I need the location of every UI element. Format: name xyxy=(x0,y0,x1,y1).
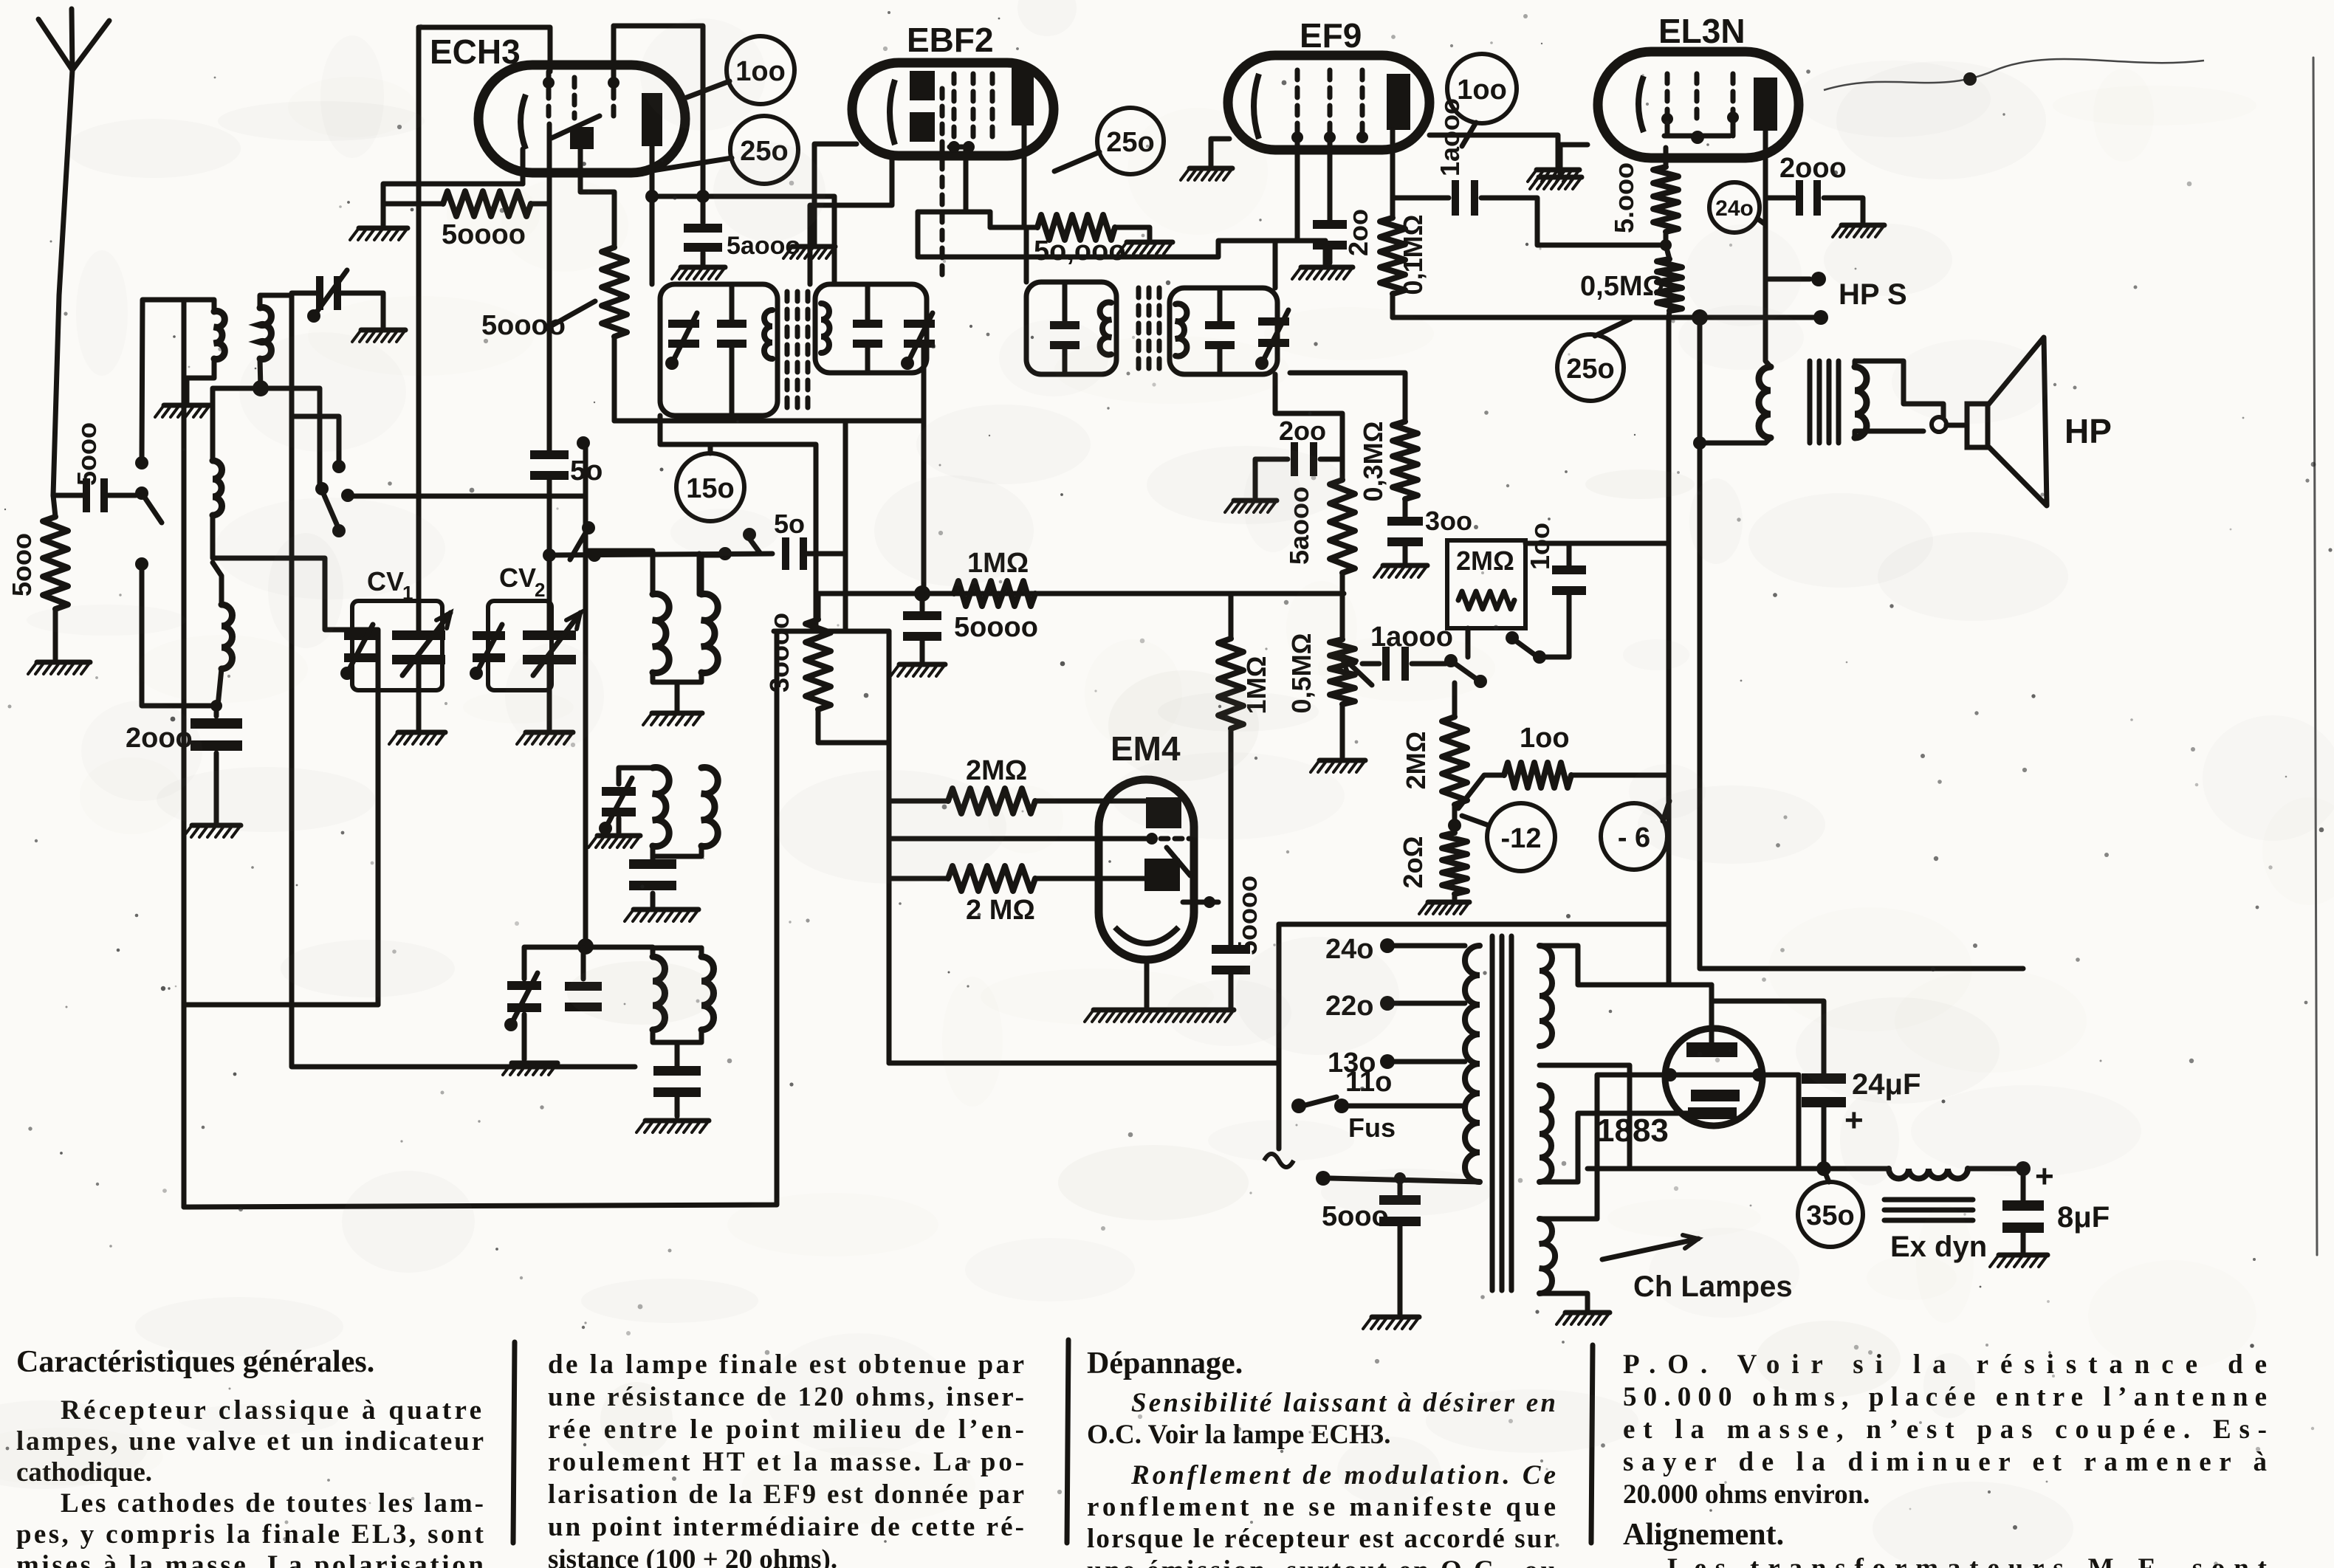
ground 20ohm xyxy=(1428,900,1469,905)
coil L8 xyxy=(653,957,665,1030)
switch AF xyxy=(1444,654,1458,667)
resistor 0.3M xyxy=(1290,373,1405,422)
wire IF2 primary feed xyxy=(991,227,1026,282)
EF9 cathode xyxy=(1254,74,1259,139)
svg-text:2MΩ: 2MΩ xyxy=(966,755,1027,786)
IF2 cap1 xyxy=(1050,321,1080,329)
svg-text:2oΩ: 2oΩ xyxy=(1398,836,1428,889)
circle 250 right xyxy=(1557,334,1624,401)
capacitor 10000 xyxy=(1393,196,1449,201)
wave switch bank 1 xyxy=(135,456,148,470)
transformer HT bottom xyxy=(1540,1085,1552,1182)
svg-text:ECH3: ECH3 xyxy=(430,32,521,71)
wire L6L7 join xyxy=(653,846,701,856)
wire switch cap100 xyxy=(1540,594,1569,657)
1883 lower bars xyxy=(1691,1090,1740,1101)
1883 cath out xyxy=(1765,1075,1799,1169)
tube EM4 xyxy=(1099,780,1194,960)
circle -12 xyxy=(1487,803,1555,871)
svg-text:HP: HP xyxy=(2064,412,2112,450)
coil L3 xyxy=(213,461,222,515)
leader 240 xyxy=(1757,219,1765,224)
tap bottom xyxy=(1316,1171,1331,1186)
svg-text:0,3MΩ: 0,3MΩ xyxy=(1358,422,1388,502)
varcap CV1 xyxy=(392,630,445,640)
EBF2 pin screen xyxy=(918,210,990,215)
EM4 screen arc xyxy=(1115,927,1178,943)
leader 100 xyxy=(687,81,730,97)
wire coilA top xyxy=(142,300,214,463)
capacitor L8 bottom xyxy=(653,1066,701,1076)
HT top lead xyxy=(1540,946,1669,985)
1883 heater line xyxy=(1663,1073,1765,1078)
tube EL3N xyxy=(1598,52,1799,158)
svg-text:1883: 1883 xyxy=(1596,1113,1669,1149)
coil L4 xyxy=(653,594,669,673)
EL3N anode lead xyxy=(1765,131,1771,367)
svg-text:20.000 ohms environ.: 20.000 ohms environ. xyxy=(1623,1479,1870,1510)
svg-text:3oooo: 3oooo xyxy=(764,613,794,692)
EF9 dashes xyxy=(1295,70,1300,133)
svg-text:Alignement.: Alignement. xyxy=(1623,1518,1784,1552)
arrow Ch Lampes xyxy=(1602,1239,1698,1259)
IF1 trimmer2 xyxy=(904,320,935,328)
resistor 5000 EL3N xyxy=(1664,148,1669,167)
wire CV2 gnd xyxy=(547,659,552,729)
svg-text:2MΩ: 2MΩ xyxy=(1456,546,1514,576)
circle 100 EF9 xyxy=(1447,54,1517,123)
speaker cone xyxy=(1988,337,2047,506)
capacitor osc pad xyxy=(651,856,656,861)
resistor 2M upper xyxy=(889,799,948,804)
wire AVC return xyxy=(182,300,187,1207)
trimmer padder xyxy=(507,981,541,990)
resistor 20ohm xyxy=(1442,833,1467,894)
coil L9 xyxy=(701,957,714,1030)
resistor 5000 antenna xyxy=(53,495,55,517)
EM4 mid electrode xyxy=(1146,833,1158,845)
ground coil L1 xyxy=(164,403,210,408)
circle 240 xyxy=(1709,182,1760,233)
EL3N dashes xyxy=(1665,74,1670,117)
capacitor 5000 series xyxy=(53,493,83,498)
resistor 0.5M EL3N xyxy=(1666,245,1669,259)
ground 50000 mid xyxy=(1127,240,1173,245)
circle 150 xyxy=(676,453,744,521)
EBF2 diode plates xyxy=(910,71,935,100)
heater winding xyxy=(1540,1219,1555,1293)
ground trimmer padder xyxy=(522,1014,527,1059)
tube 1883 xyxy=(1665,1028,1762,1126)
capacitor padder2 xyxy=(565,982,602,991)
trimmer CV2 xyxy=(473,631,505,640)
svg-text:15o: 15o xyxy=(686,473,734,504)
svg-text:pes, y compris la finale EL3,: pes, y compris la finale EL3, sont xyxy=(16,1519,484,1550)
wire V2 xyxy=(1700,317,2023,969)
svg-text:2oo: 2oo xyxy=(1343,209,1373,256)
svg-text:2: 2 xyxy=(535,579,545,601)
EL3N cathode xyxy=(1638,76,1644,132)
EF9 cath lead xyxy=(1328,137,1333,222)
wire CV1 line xyxy=(416,27,422,636)
ECH3 grid dots xyxy=(543,77,555,89)
resistor 100 h xyxy=(1458,775,1504,808)
EF9 dots xyxy=(1291,131,1303,143)
capacitor 100 grid xyxy=(1552,565,1586,574)
trimmer osc mid xyxy=(602,787,636,796)
svg-text:O.C. Voir la lampe ECH3.: O.C. Voir la lampe ECH3. xyxy=(1087,1420,1391,1450)
svg-text:sistance (100 + 20 ohms).: sistance (100 + 20 ohms). xyxy=(548,1544,837,1568)
EM4 grid1 xyxy=(1146,797,1181,828)
leader 250 right xyxy=(1595,319,1630,336)
svg-text:2MΩ: 2MΩ xyxy=(1401,732,1431,790)
EF9 metal gnd xyxy=(1429,135,1558,167)
ground 300 xyxy=(1383,563,1427,568)
tuning frame left xyxy=(419,27,550,72)
resistor 2M box xyxy=(1458,591,1514,609)
ECH3 anode xyxy=(642,93,662,146)
speaker driver xyxy=(1967,404,1988,447)
wire 2000 to gnd xyxy=(214,753,219,822)
svg-text:0,5MΩ: 0,5MΩ xyxy=(1580,271,1665,302)
scratch top right xyxy=(1824,59,2204,90)
resistor 1M h xyxy=(954,581,1035,606)
OT sec loop xyxy=(1932,417,1946,432)
ECH3 pin triode grid xyxy=(547,124,552,204)
junction padder xyxy=(577,938,594,955)
junction 1M xyxy=(914,585,930,602)
wire padder drop xyxy=(586,947,587,949)
wire CV1 gnd xyxy=(416,659,422,729)
resistor 0.1M xyxy=(1380,218,1405,294)
svg-text:un point intermédiaire de cett: un point intermédiaire de cette ré- xyxy=(548,1512,1024,1542)
ground L8 xyxy=(645,1118,709,1124)
ground CT1 xyxy=(381,293,386,327)
capacitor 24uF xyxy=(1712,1001,1824,1074)
rule col2-3 xyxy=(1067,1340,1068,1543)
IF2 coil right xyxy=(1175,303,1187,356)
paper speckle noise xyxy=(1490,41,1493,44)
switch bank 3 xyxy=(718,547,732,560)
ECH3 grid dashes xyxy=(546,89,552,124)
rail diode xyxy=(818,591,1344,596)
OT primary xyxy=(1759,367,1771,438)
ECH3 osc grid xyxy=(570,127,594,149)
resistor 2M v xyxy=(1452,683,1458,717)
IF2 coil left xyxy=(1100,303,1111,355)
wire 1145 xyxy=(843,421,848,631)
ground EF9 cath xyxy=(1301,265,1353,270)
rail bias xyxy=(1393,315,1821,320)
IF1 cap2 xyxy=(853,320,882,328)
svg-text:une émission, surtout en O.C.,: une émission, surtout en O.C., ou xyxy=(1087,1555,1556,1568)
rail 602 xyxy=(660,416,816,631)
IF1 left box xyxy=(660,284,778,416)
wire L9 top riser xyxy=(701,947,702,949)
heater bottom xyxy=(1540,1293,1588,1310)
HT center tap xyxy=(1540,1065,1630,1169)
wire 50cap right xyxy=(807,551,845,557)
resistor 2M lower xyxy=(889,876,948,881)
ECH3 cathode pin xyxy=(521,149,526,184)
coil L5 xyxy=(701,594,718,673)
leader -6 xyxy=(1663,801,1669,821)
svg-text:EF9: EF9 xyxy=(1300,16,1362,55)
heater top lead xyxy=(1540,1075,1663,1219)
EM4 target dash xyxy=(1183,900,1224,905)
svg-text:Les cathodes de toutes les lam: Les cathodes de toutes les lam- xyxy=(61,1488,484,1519)
rule col3-4 xyxy=(1591,1345,1593,1543)
svg-text:-12: -12 xyxy=(1501,823,1542,854)
svg-text:5o,ooo: 5o,ooo xyxy=(1034,235,1126,267)
wire osc line xyxy=(348,494,586,499)
box 2M xyxy=(1447,540,1525,628)
EL3N anode xyxy=(1754,78,1777,131)
IF2 trimmer xyxy=(1258,317,1289,326)
capacitor 8uF xyxy=(2021,1169,2026,1200)
ground heater xyxy=(1565,1310,1610,1316)
rail B+ 2 xyxy=(1968,1166,2023,1172)
wire padder links xyxy=(586,920,653,948)
svg-text:2oo: 2oo xyxy=(1279,416,1326,446)
svg-text:5.ooo: 5.ooo xyxy=(1609,162,1639,233)
resistor 50000 mid xyxy=(990,225,1037,230)
box CV1 xyxy=(352,601,442,690)
junction osc xyxy=(260,359,261,388)
capacitor 50 grid xyxy=(530,450,569,459)
svg-text:EL3N: EL3N xyxy=(1658,12,1746,50)
OT core xyxy=(1808,361,1813,443)
EBF2 anode xyxy=(1012,68,1034,125)
capacitor 50 osc xyxy=(782,537,789,570)
wire coil E riser xyxy=(697,554,702,594)
OT primary bottom xyxy=(1700,438,1771,443)
circle -6 xyxy=(1601,803,1667,870)
EF9 anode lead xyxy=(1390,130,1396,218)
EM4 grid2 xyxy=(1144,859,1180,891)
wire cath gnd xyxy=(383,184,523,225)
antenna xyxy=(38,19,72,70)
wire padder up xyxy=(586,871,653,948)
circle 350 xyxy=(1798,1182,1863,1247)
ECH3 diagonal xyxy=(552,116,600,138)
ground pot xyxy=(1319,758,1365,763)
wire padder horiz xyxy=(524,945,653,950)
mains left xyxy=(1277,924,1282,1149)
wire junction to coilC xyxy=(213,388,261,461)
ground CV1 xyxy=(398,730,445,735)
svg-text:11o: 11o xyxy=(1345,1067,1392,1098)
wire stub 1361 xyxy=(184,1003,378,1008)
circle 250 EBF2 xyxy=(1097,108,1164,174)
ground 5000 mains xyxy=(1372,1315,1419,1320)
ground EM4 xyxy=(1094,1008,1234,1013)
box CV2 xyxy=(488,601,552,690)
potentiometer 0.5M xyxy=(1330,639,1355,704)
EF9 gnd left xyxy=(1211,139,1229,165)
wire osc coil feed xyxy=(583,496,588,946)
ground 50000 node xyxy=(899,662,945,667)
tube EF9 xyxy=(1228,55,1429,150)
wire to 2000 cap xyxy=(142,564,216,716)
frame ECH3 right xyxy=(614,26,703,223)
ground 8uF xyxy=(1999,1253,2048,1258)
capacitor 2000 xyxy=(191,718,242,729)
EM4 mid wire xyxy=(889,836,1149,842)
capacitor 200 EF9 xyxy=(1313,220,1347,229)
svg-text:5ooo: 5ooo xyxy=(72,422,102,486)
svg-text:Fus: Fus xyxy=(1348,1113,1396,1143)
EF9 grid lead xyxy=(1295,137,1300,241)
ground CV2 xyxy=(526,730,573,735)
svg-text:Dépannage.: Dépannage. xyxy=(1087,1347,1243,1380)
rail B+ xyxy=(1588,1166,1889,1172)
trimmer CV1 xyxy=(344,631,377,640)
EL3N pin bar xyxy=(1665,119,1670,136)
varcap CV2 xyxy=(523,630,576,640)
IF2 left box xyxy=(1026,282,1116,374)
wire coilL5 top xyxy=(701,555,721,594)
choke Ex dyn xyxy=(1889,1169,1968,1179)
leader -12 xyxy=(1462,816,1489,825)
EBF2 cathode xyxy=(890,80,895,145)
ground ECH3 cath xyxy=(359,226,408,231)
capacitor 2000 EL3N xyxy=(1765,196,1794,201)
leader 100 EF9 xyxy=(1462,123,1476,146)
rail AVC xyxy=(614,419,924,424)
IF2 cap2 xyxy=(1205,321,1235,329)
coil L2 xyxy=(260,308,271,360)
EBF2 gnd left xyxy=(814,144,857,244)
OT sec bottom xyxy=(1855,431,1923,438)
capacitor 200 det xyxy=(1291,442,1298,476)
wire coil45 bottom xyxy=(653,673,701,682)
wire coilB top xyxy=(260,295,292,308)
rail EBF2 screen xyxy=(918,212,1325,257)
page edge line xyxy=(2313,58,2317,1255)
EL3N gnd left xyxy=(1560,145,1588,174)
ECH3 pin anode xyxy=(650,146,655,284)
EM4 bottom lead xyxy=(1144,960,1150,1007)
tube ECH3 xyxy=(478,65,685,173)
EBF2 grid dashes xyxy=(952,74,957,137)
svg-text:1aooo: 1aooo xyxy=(1435,98,1465,176)
svg-text:CV: CV xyxy=(499,563,536,593)
wire V1 xyxy=(1669,317,1712,985)
circle 100 ECH3 xyxy=(727,36,794,104)
IF1 coil left xyxy=(764,310,772,359)
IF1 trimmer xyxy=(668,320,699,328)
svg-text:5oooo: 5oooo xyxy=(954,612,1038,643)
switch bank 2 xyxy=(332,460,346,473)
mains squiggle xyxy=(1264,1154,1294,1167)
trimmer CT1 xyxy=(292,291,316,296)
coil L1 xyxy=(214,312,224,360)
capacitor 5000 mains xyxy=(1398,1178,1403,1194)
ground 200 det xyxy=(1234,498,1277,503)
wire junction to switch2 xyxy=(261,388,320,487)
wire EM4 vert xyxy=(887,631,892,1063)
EBF2 anode lead xyxy=(1022,125,1027,227)
svg-text:lorsque le récepteur est accor: lorsque le récepteur est accordé sur xyxy=(1087,1524,1556,1554)
ground screen cap xyxy=(681,265,725,270)
leader 250 ECH3 xyxy=(648,158,732,171)
ground 2000 EL3N xyxy=(1842,223,1884,228)
ground coil45 xyxy=(652,711,702,716)
svg-text:mises à la masse. La polarisat: mises à la masse. La polarisation xyxy=(16,1550,484,1568)
wire padder junction xyxy=(652,673,653,768)
svg-text:1oo: 1oo xyxy=(1520,723,1570,754)
choke core xyxy=(1884,1197,1973,1203)
svg-text:0,1MΩ: 0,1MΩ xyxy=(1398,215,1428,295)
svg-text:5ooo: 5ooo xyxy=(7,533,37,596)
capacitor 50000 node xyxy=(920,594,925,611)
svg-text:2ooo: 2ooo xyxy=(1779,153,1847,184)
svg-text:25o: 25o xyxy=(1566,354,1614,385)
svg-text:35o: 35o xyxy=(1806,1200,1854,1231)
resistor 50000 det xyxy=(1330,480,1355,573)
wire to 50 cap xyxy=(549,554,772,555)
leader 250 EBF2 xyxy=(1054,152,1099,171)
rail 855 xyxy=(774,629,889,634)
transformer HT top xyxy=(1540,946,1552,1046)
chain 200cap det xyxy=(1275,374,1342,480)
1883 anode bar xyxy=(1686,1042,1737,1057)
rule col1-2 xyxy=(513,1342,515,1543)
svg-text:EBF2: EBF2 xyxy=(907,21,994,59)
transformer core xyxy=(1490,936,1495,1290)
EF9 anode xyxy=(1387,74,1410,130)
EL3N dots xyxy=(1661,113,1673,125)
resistor 30000 xyxy=(816,594,821,619)
IF2 right box xyxy=(1170,288,1277,374)
capacitor 50000 screen xyxy=(684,224,722,233)
wire ECH3 grid chain xyxy=(547,204,552,452)
resistor 50000 grid xyxy=(383,202,443,207)
svg-text:1oo: 1oo xyxy=(1525,523,1555,570)
ground osc pad xyxy=(634,907,699,912)
resistor 1M v xyxy=(1229,594,1234,639)
coil L6 xyxy=(653,768,669,847)
ECH3 cathode xyxy=(521,94,526,149)
svg-text:24o: 24o xyxy=(1715,196,1754,221)
transformer primary xyxy=(1465,946,1480,1182)
rail HT screen xyxy=(652,196,834,284)
IF1 coil right xyxy=(821,303,830,353)
coil L3b xyxy=(222,605,233,669)
wire grid rail xyxy=(1525,541,1668,546)
OT secondary xyxy=(1855,367,1867,438)
capacitor 50000 EM4 xyxy=(1212,945,1250,954)
wire IF1 to node xyxy=(923,421,924,594)
wire box drop xyxy=(1466,628,1471,657)
IF1 cap xyxy=(717,320,746,328)
svg-text:2 MΩ: 2 MΩ xyxy=(966,895,1035,926)
EBF2 cathode pin xyxy=(810,156,892,284)
HPS terminals xyxy=(1811,272,1826,286)
capacitor 300 xyxy=(1403,499,1408,517)
coil L7 xyxy=(701,768,718,847)
wire coilC bottom xyxy=(213,515,378,1005)
svg-text:8μF: 8μF xyxy=(2057,1201,2110,1234)
svg-text:5o: 5o xyxy=(774,509,805,539)
rail 1252 xyxy=(1279,922,1669,927)
OT sec top xyxy=(1855,361,1943,418)
HT bottom lead xyxy=(1540,1113,1688,1182)
svg-text:3oo: 3oo xyxy=(1425,506,1472,536)
IF1 core xyxy=(785,292,790,410)
EBF2 pin grid xyxy=(940,89,945,275)
